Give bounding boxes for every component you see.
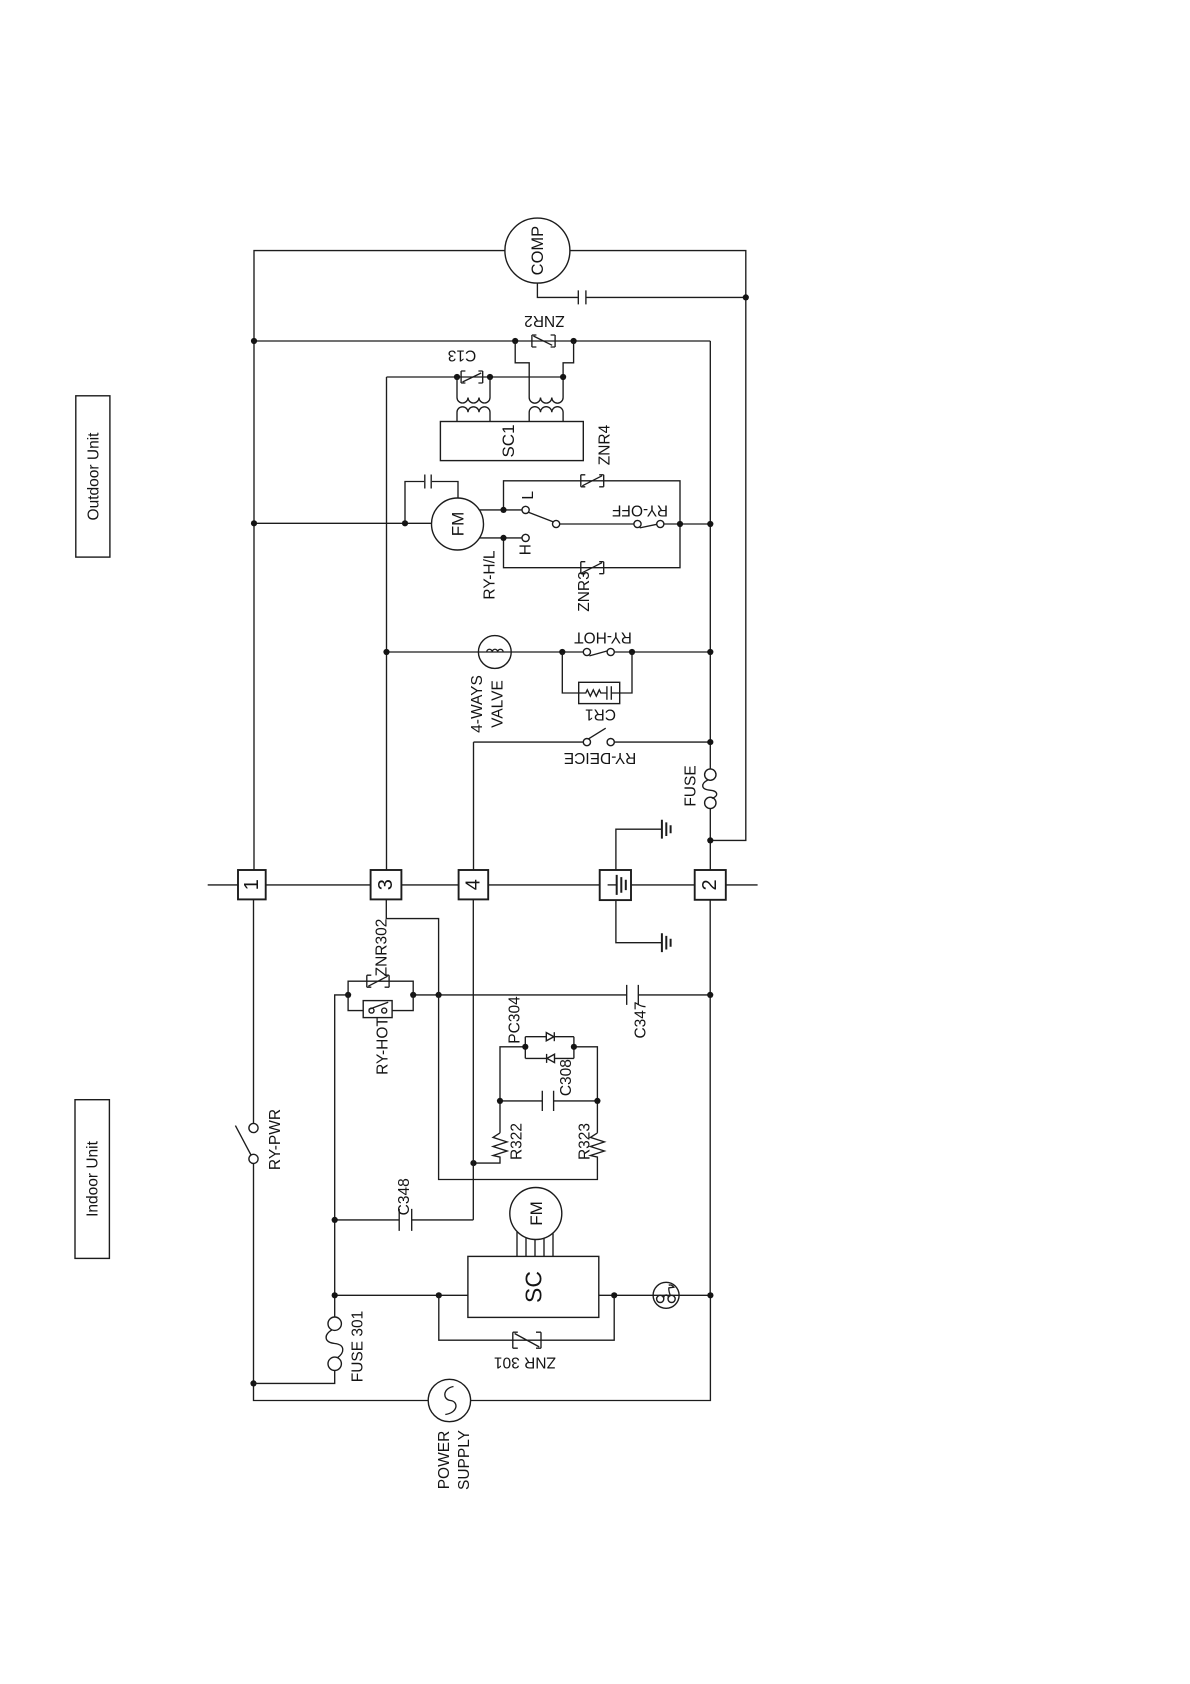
svg-text:R323: R323 [577,1123,594,1160]
svg-text:ZNR2: ZNR2 [524,312,564,329]
node ZNR301 right [611,1292,617,1298]
wire COMP bottom stub and capacitor feed [537,283,745,297]
Outdoor Unit label box [76,396,110,557]
wire terminal1 to RY-PWR [253,899,255,1123]
wire RY-OFF to bus [664,523,710,525]
svg-text:4: 4 [462,879,484,890]
svg-text:FM: FM [449,512,468,537]
switch RY-DEICE [564,728,636,766]
ground upper [662,820,671,839]
resistor R322 [474,1123,526,1163]
node CT2 tap [560,374,566,380]
node R322 to terminal4 line [470,1160,476,1166]
wire indoor rail [335,1294,711,1296]
power supply source [428,1379,473,1490]
wire valve line [387,651,711,653]
varistor ZNR4 [581,475,604,487]
svg-text:RY-DEICE: RY-DEICE [564,749,636,766]
wire FM to L contact [479,509,522,511]
Indoor Unit label box [75,1100,109,1259]
switch RY-OFF [612,501,668,528]
svg-text:RY-HOT: RY-HOT [574,629,632,646]
varistor ZNR3 [576,562,604,612]
node left bus ZNR2 [251,338,257,344]
node H tap [500,535,506,541]
svg-text:FUSE: FUSE [683,765,700,806]
wire ZNR301 loop [439,1295,614,1340]
terminal earth [600,870,631,900]
node CR1 left [559,649,565,655]
svg-text:3: 3 [375,879,397,890]
capacitor C347 [627,985,650,1039]
node ZNR2 right [571,338,577,344]
node bypass right [677,521,683,527]
svg-text:4-WAYS: 4-WAYS [469,675,486,733]
svg-text:RY-OFF: RY-OFF [612,501,668,518]
node right bus FM line [707,521,713,527]
node CR1 right [629,649,635,655]
node COMP cap to right rail [743,294,749,300]
svg-text:2: 2 [699,879,721,890]
wire ZNR2 to CT2 steps [515,341,573,398]
wire C308 line [500,1100,597,1102]
controller SC [468,1256,599,1317]
svg-text:L: L [520,491,537,500]
svg-text:ZNR3: ZNR3 [576,571,593,611]
wire RY-PWR to power supply [254,1164,429,1401]
wire ZNR2 line [254,340,710,342]
transformer CT2 [529,398,563,422]
node rail right bus [707,1292,713,1298]
wire ZNR302 loop top [348,981,413,995]
capacitor C308 [542,1059,575,1111]
node valve line left [383,649,389,655]
wire power supply to right bus [471,1295,711,1400]
svg-text:VALVE: VALVE [489,680,506,728]
wire RY-H/L common to RY-OFF [560,523,634,525]
wire RY-DEICE line [474,741,711,743]
node ZNR301 left [436,1292,442,1298]
terminal 4 [459,870,489,899]
optocoupler PC304 [507,996,574,1063]
wire ZNR302 loop bottom [348,995,413,1011]
capacitor FM run [425,475,431,489]
wire terminal4 riser [473,742,475,870]
svg-text:C347: C347 [633,1001,650,1038]
4-ways valve coil [469,636,511,733]
svg-text:PC304: PC304 [507,996,524,1044]
node C13 left [454,374,460,380]
svg-text:FM: FM [527,1201,546,1226]
svg-text:RY-HOT: RY-HOT [375,1017,392,1075]
wire CR1 loop [562,652,632,693]
svg-text:Indoor Unit: Indoor Unit [85,1140,102,1217]
node C308 right [594,1098,600,1104]
terminal rail [208,884,758,886]
wire C13 line [387,376,564,378]
fan motor FM indoor [510,1188,562,1240]
switch RY-H/L [482,491,560,600]
node L tap [500,507,506,513]
terminal 3 [371,870,402,899]
varistor ZNR301 [494,1332,556,1370]
svg-text:SC1: SC1 [499,424,518,457]
wire C347 line [413,994,710,996]
switch RY-PWR [235,1109,284,1170]
node C308 left [497,1098,503,1104]
varistor ZNR302 [367,919,391,988]
svg-text:R322: R322 [509,1123,526,1160]
node ZNR302 right [410,992,416,998]
node ZNR302 left [345,992,351,998]
wire fuse301 branch [254,1295,335,1383]
wire outdoor main loop [254,251,746,870]
wire FM bypass loop ZNR4/ZNR3 [504,481,681,568]
node C13 right [487,374,493,380]
wire PC304 left branch [500,1047,525,1133]
varistor ZNR2 [524,312,564,347]
node fuse301 join [250,1380,256,1386]
wire FM to H contact [479,537,522,539]
svg-text:ZNR 301: ZNR 301 [494,1354,556,1371]
wire PC304 right branch [574,1047,598,1133]
switch RY-HOT outdoor [574,629,632,656]
compressor COMP [505,218,570,283]
snubber CR1 [579,682,620,722]
wire FM leads [517,1232,553,1257]
node right bus valve line [707,649,713,655]
capacitor C13 [448,347,483,384]
svg-text:RY-H/L: RY-H/L [482,550,499,599]
resistor R323 [439,995,605,1180]
ground lower [662,933,671,952]
node right bus deice line [707,739,713,745]
node PC304 left [522,1044,528,1050]
svg-text:SC: SC [521,1271,547,1303]
svg-text:H: H [518,544,535,555]
svg-text:POWER: POWER [436,1431,453,1490]
protector earth circle [653,1282,679,1308]
node C348 left [332,1217,338,1223]
svg-text:CR1: CR1 [585,706,616,723]
fan motor FM outdoor [432,498,484,550]
wire earth terminal lower [616,900,662,943]
svg-text:FUSE 301: FUSE 301 [350,1311,367,1383]
capacitor on COMP line [578,290,586,304]
svg-text:C348: C348 [396,1178,413,1215]
terminal 2 [695,870,726,900]
wire terminal4 down line [472,899,474,1220]
node left bus FM [251,520,257,526]
node C347 line [707,992,713,998]
node rail left [332,1292,338,1298]
switch RY-HOT indoor [363,1001,392,1075]
wire terminal3 branch [386,899,438,995]
node terminal3 branch [436,992,442,998]
svg-text:C308: C308 [558,1059,575,1096]
node PC304 right [571,1044,577,1050]
svg-text:C13: C13 [448,347,476,364]
wire ZNR302 left corner down [335,995,348,1295]
wire FM left feed [254,522,432,524]
fuse FUSE 301 [326,1311,366,1383]
svg-text:1: 1 [241,879,263,890]
svg-text:ZNR302: ZNR302 [374,919,391,977]
svg-text:Outdoor Unit: Outdoor Unit [85,432,102,521]
wire terminal2 down bus [709,900,711,1296]
svg-text:RY-PWR: RY-PWR [267,1109,284,1170]
wire C348 line [335,1219,474,1221]
wire earth terminal upper [616,829,662,870]
capacitor C348 [396,1178,413,1231]
transformer CT1 [457,377,490,422]
terminal 1 [238,870,266,899]
fuse FUSE outdoor [683,765,717,808]
controller SC1 [440,422,583,461]
svg-text:SUPPLY: SUPPLY [456,1430,473,1490]
wire FM run capacitor branch [405,482,458,524]
svg-text:ZNR4: ZNR4 [597,424,614,465]
node FM cap branch [402,520,408,526]
node ZNR2 left [512,338,518,344]
wire right bus x=710 upper [709,341,711,870]
svg-text:COMP: COMP [529,226,547,276]
node fuse to frame [707,837,713,843]
wire C13 corner down to terminal 3 [386,377,388,870]
